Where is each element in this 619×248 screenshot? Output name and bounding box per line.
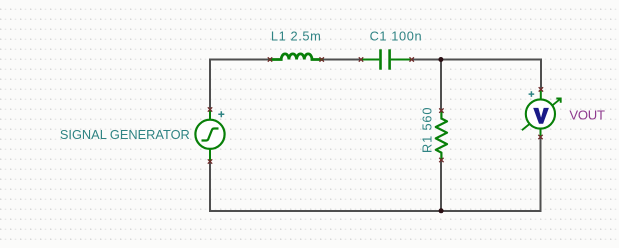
wire top segment between node A and voltmeter branch [441, 59, 541, 61]
inductor L1 right pin x [320, 57, 324, 61]
signal generator bottom pin x [208, 159, 212, 163]
signal generator top pin x [208, 107, 212, 111]
voltmeter V letter [533, 108, 549, 124]
inductor L1 body (coil) [270, 54, 322, 60]
inductor L1 left pin x [268, 57, 272, 61]
svg-text:C1 100n: C1 100n [370, 28, 423, 43]
voltmeter top pin x [539, 87, 543, 91]
voltmeter U1 body [526, 90, 555, 138]
wire right vertical upper (top rail corner down to voltmeter top) [540, 59, 542, 90]
voltmeter polarity + mark [529, 91, 535, 97]
wire left vertical upper (generator top to top rail) [209, 59, 211, 111]
signal generator polarity + mark [218, 111, 224, 117]
wire bottom rail [209, 210, 541, 212]
svg-text:L1 2.5m: L1 2.5m [271, 28, 321, 43]
svg-text:R1 560: R1 560 [420, 107, 435, 153]
capacitor C1 left pin x [359, 57, 363, 61]
wire middle vertical lower (R1 bottom to bottom rail node) [440, 160, 442, 211]
wire top-left horizontal segment (node between SIGNAL GENERATOR and L1) [210, 59, 270, 61]
bottom rail junction dot [439, 208, 444, 213]
voltmeter bottom pin x [538, 135, 542, 139]
voltmeter needle arrow (drawn under meter circle) [522, 99, 561, 131]
svg-text:VOUT: VOUT [569, 107, 605, 122]
wire middle vertical upper (node A to R1 top) [440, 60, 442, 111]
wire left vertical lower (generator bottom to bottom rail) [209, 161, 211, 212]
svg-text:SIGNAL GENERATOR: SIGNAL GENERATOR [60, 127, 190, 142]
node A junction dot (top, L1/C1/R1/voltmeter net) [438, 57, 443, 62]
capacitor C1 right pin x [410, 57, 414, 61]
capacitor C1 body (plates and leads) [361, 49, 412, 69]
wire top segment between L1 and C1 [322, 59, 361, 61]
resistor R1 bottom pin x [439, 158, 443, 162]
resistor R1 body (zigzag) [436, 111, 447, 160]
resistor R1 top pin x [439, 108, 443, 112]
wire top segment between C1 and node A [412, 59, 441, 61]
signal generator V1 body [195, 110, 224, 161]
wire right vertical lower (voltmeter bottom to bottom rail) [540, 137, 542, 212]
